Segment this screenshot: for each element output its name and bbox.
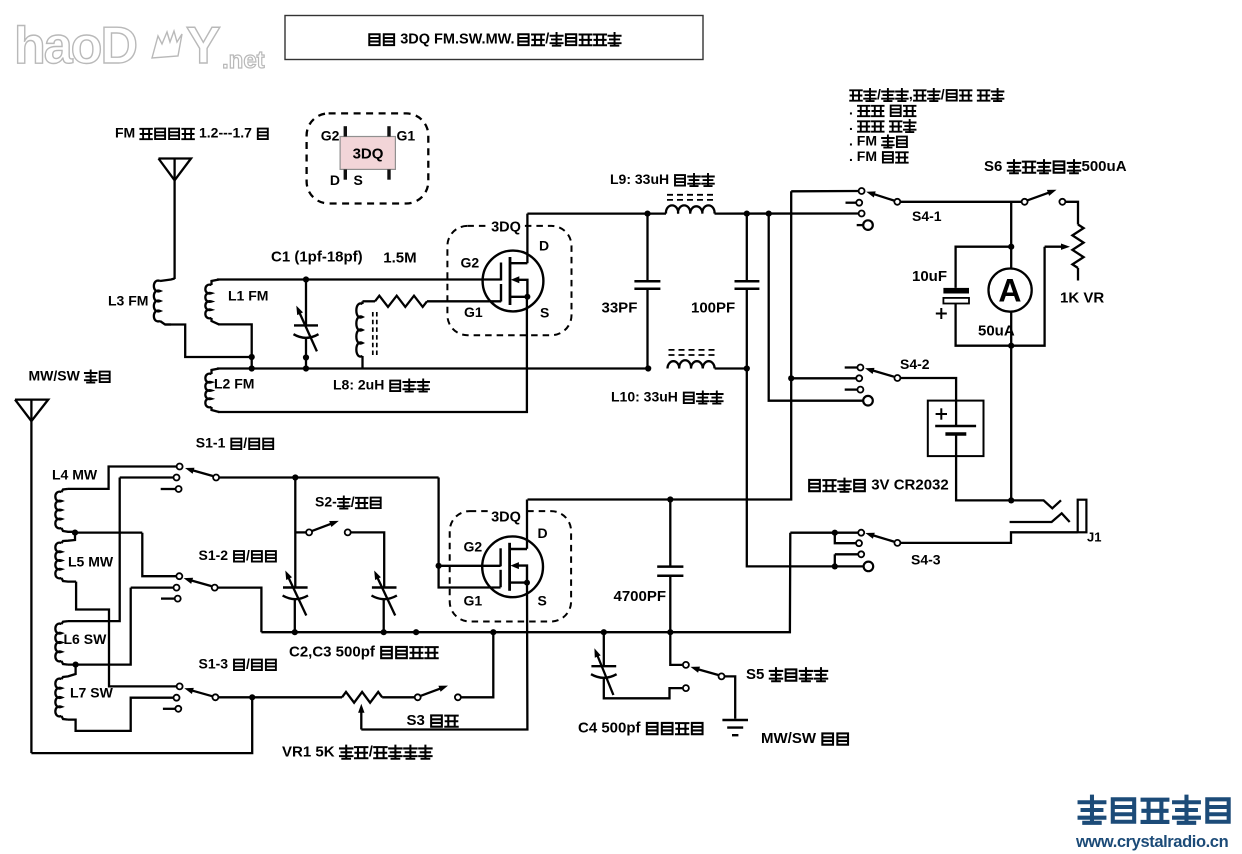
- wire S4-3 pivot to J1 sleeve: [901, 532, 1078, 543]
- junction L4/L5 tap: [72, 530, 78, 536]
- variable capacitor C2 curved plate: [283, 596, 308, 600]
- svg-text:. FM: . FM: [849, 133, 877, 149]
- wire L2 top line: [217, 367, 648, 369]
- S4-1 wiper pivot: [894, 199, 900, 205]
- svg-text:/: /: [369, 744, 374, 761]
- svg-text:J1: J1: [1087, 530, 1101, 545]
- S1-3 wiper pivot: [212, 694, 218, 700]
- wire L2 bottom line to Q1 source: [218, 297, 527, 412]
- S4-3 contact3 stub: [835, 553, 858, 555]
- svg-text:D: D: [330, 172, 340, 188]
- wire S1-1 pivot to Q2: [219, 476, 438, 478]
- wire C3 bottom lead: [383, 599, 385, 632]
- wire antenna ground run: [31, 697, 252, 753]
- inductor L3 FM: [154, 281, 160, 322]
- S6 contact b: [1059, 199, 1065, 205]
- meter M 50uA circle: [989, 269, 1032, 312]
- wire L10 right stub: [715, 367, 747, 369]
- wire S1-2 c2 feed: [131, 586, 174, 588]
- wire S1-1 c2 feed: [120, 476, 174, 478]
- svg-text:S4-3: S4-3: [911, 552, 941, 568]
- svg-text:G1: G1: [464, 304, 483, 320]
- battery BT1 long plate: [935, 425, 976, 428]
- S1-1 wiper arm: [192, 470, 213, 476]
- capacitor 4700PF: [657, 565, 683, 568]
- junction S4-3 common tee: [832, 563, 838, 569]
- svg-text:C2,C3 500pf: C2,C3 500pf: [289, 644, 376, 661]
- wire S4-1 pivot to S6: [901, 201, 1022, 203]
- wire L4 top to S1-1 c1: [68, 467, 176, 489]
- svg-text:. FM: . FM: [849, 148, 877, 164]
- inductor L5 MW: [55, 543, 61, 579]
- svg-text:L6 SW: L6 SW: [64, 631, 108, 647]
- wire 33PF top lead: [646, 214, 648, 282]
- junction J1 tip node: [1008, 497, 1014, 503]
- wire 100PF net down to S4-3 common: [747, 369, 864, 567]
- wire 1K VR wiper down: [1011, 247, 1044, 346]
- C1 trimmer arrow: [299, 312, 317, 352]
- haoDIY.net watermark logo: [14, 17, 265, 75]
- S3 contact 2: [455, 694, 461, 700]
- wire L8 top to resistor: [363, 300, 376, 302]
- capacitor C1 curved plate: [294, 334, 319, 338]
- svg-text:G2: G2: [461, 255, 480, 271]
- junction rail seam: [413, 629, 419, 635]
- svg-text:/: /: [941, 86, 945, 102]
- J1 plug body: [1078, 500, 1087, 533]
- wire S1-1 c2 net to L6 top: [68, 478, 120, 622]
- capacitor C1 top plate: [294, 324, 318, 326]
- S4-1 wiper arm: [871, 193, 894, 200]
- title box frame: [285, 16, 703, 60]
- transistor Q1 3DQ dual-gate MOSFET: [483, 251, 544, 312]
- variable capacitor C2 arrow: [288, 577, 306, 616]
- svg-text:A: A: [998, 273, 1021, 309]
- S5 wiper pivot: [719, 673, 725, 679]
- wire Q2 source down: [361, 583, 527, 730]
- wire 4700PF top lead: [669, 500, 671, 567]
- wire 10uF bottom: [956, 304, 1012, 346]
- wire S3 to rail: [461, 632, 493, 697]
- S4-1 contact1 wire: [791, 190, 858, 193]
- resistor 1.5M: [375, 296, 427, 307]
- S1-1 contact 1: [177, 464, 183, 470]
- capacitor 10uF negative plate: [943, 298, 969, 304]
- svg-text:FM: FM: [115, 125, 135, 141]
- wire L5 bottom to S1-3 c1: [76, 582, 176, 687]
- svg-text:Y: Y: [186, 17, 221, 75]
- S4-1 contact2 stub: [846, 202, 856, 204]
- svg-text:500uA: 500uA: [1082, 158, 1127, 175]
- svg-text:3DQ: 3DQ: [491, 220, 521, 236]
- logo glyph 石: [1113, 799, 1134, 821]
- svg-text:S1-3: S1-3: [199, 656, 229, 672]
- S4-1 common terminal: [863, 220, 873, 230]
- svg-text:L10: 33uH: L10: 33uH: [611, 389, 678, 405]
- svg-text:.: .: [849, 117, 853, 133]
- wire Q2 drain up to D-line: [526, 500, 528, 549]
- svg-text:VR1 5K: VR1 5K: [282, 744, 335, 761]
- svg-text:D: D: [538, 525, 548, 541]
- pin S (bottom-right): [387, 169, 390, 179]
- S4-1 contact 2: [856, 200, 862, 206]
- battery plus sign: [936, 413, 947, 415]
- MW/SW wire antenna symbol: [15, 400, 48, 422]
- capacitor C4 top plate: [591, 665, 616, 667]
- capacitor 100PF: [735, 280, 760, 283]
- S5 contact 2: [683, 685, 689, 691]
- logo glyph 收: [1143, 800, 1168, 822]
- logo glyph 矿: [1080, 797, 1105, 823]
- wire Q1 drain up: [526, 214, 528, 264]
- wire battery negative down: [956, 434, 1011, 500]
- battery box: [928, 401, 984, 457]
- inductor L9 33uH choke: [666, 205, 715, 213]
- wire meter bottom lead: [1010, 312, 1012, 346]
- wire S4-1 contact1 net down: [528, 191, 792, 499]
- transistor Q2 3DQ dual-gate MOSFET: [482, 536, 543, 597]
- transistor Q1 dashed box: [447, 226, 571, 335]
- wire top drain rail right of L9: [715, 212, 862, 214]
- wire L1 bottom to junction: [218, 324, 252, 368]
- VR1 wiper arrow: [360, 711, 362, 730]
- S1-3 contact 2: [174, 695, 180, 701]
- svg-text:/: /: [246, 656, 250, 672]
- S2 contact1 stub: [295, 531, 306, 533]
- wire C4 top lead: [603, 632, 605, 666]
- wire S5 pivot to ground: [725, 676, 735, 718]
- 3DQ pinout dashed box: [307, 113, 429, 203]
- S1-3 contact 1: [177, 683, 183, 689]
- junction L1 path at L2 top: [249, 365, 255, 371]
- wire resistor to G1: [427, 300, 501, 302]
- svg-text:1.5M: 1.5M: [383, 250, 416, 267]
- text 调频/调幅,无源/再生 选择: [850, 90, 862, 100]
- wire VR1 to S3: [382, 696, 414, 698]
- junction S1-1/S2 tee: [292, 474, 298, 480]
- junction C4 top: [601, 629, 607, 635]
- S4-2 common terminal: [863, 396, 873, 406]
- svg-text:100PF: 100PF: [691, 300, 735, 317]
- S1-1 contact3 stub: [161, 488, 175, 490]
- S1-2 contact 1: [176, 573, 182, 579]
- L8 core dashes: [373, 312, 377, 356]
- wire C1 top lead: [305, 280, 307, 326]
- svg-text:www.crystalradio.cn: www.crystalradio.cn: [1075, 833, 1229, 851]
- junction C2 bottom: [292, 629, 298, 635]
- junction 4700PF top: [667, 496, 673, 502]
- svg-text:L3 FM: L3 FM: [108, 293, 148, 309]
- S1-2 contact 2: [174, 585, 180, 591]
- svg-text:L2 FM: L2 FM: [214, 376, 254, 392]
- pin D (bottom-left): [344, 169, 347, 179]
- S3 open wiper arm: [421, 689, 441, 696]
- inductor L2 FM: [205, 374, 211, 408]
- svg-text:1K VR: 1K VR: [1060, 290, 1104, 307]
- wire C4 bottom to S5 c2: [604, 678, 683, 698]
- variable capacitor C3 top plate: [372, 586, 397, 588]
- wire S2 c2 to C3: [351, 532, 384, 587]
- svg-text:S: S: [538, 593, 547, 609]
- junction L3/L1 tap: [249, 354, 255, 360]
- svg-text:S: S: [354, 172, 363, 188]
- S4-2 contact1 stub: [845, 366, 857, 368]
- svg-text:G2: G2: [464, 539, 483, 555]
- svg-text:G1: G1: [397, 128, 416, 144]
- svg-text:S1-1: S1-1: [196, 435, 226, 451]
- S4-3 common terminal: [864, 562, 874, 572]
- svg-text:C4 500pf: C4 500pf: [578, 720, 642, 737]
- junction S3 on rail: [490, 629, 496, 635]
- pin G2 (top-left): [344, 126, 347, 136]
- junction S4-3 c1 tee: [832, 530, 838, 536]
- svg-text:L4 MW: L4 MW: [52, 467, 98, 483]
- S4-1 common stub: [857, 224, 863, 226]
- junction C1 bottom a: [303, 354, 309, 360]
- junction antenna/S1-3 tee: [249, 694, 255, 700]
- S4-2 contact 3: [857, 387, 863, 393]
- svg-text:/: /: [246, 547, 250, 563]
- 3DQ package body: [340, 137, 395, 170]
- pin G1 (top-right): [387, 126, 390, 136]
- junction C1 bottom b: [303, 365, 309, 371]
- battery BT1 short plate: [945, 432, 966, 436]
- ground MW/SW: [722, 719, 748, 721]
- S4-2 contact2 wire: [791, 377, 856, 379]
- wire L6 bottom to S1-2 c2: [68, 588, 131, 665]
- inductor L7 SW: [55, 679, 61, 717]
- resistor 1K VR: [1072, 225, 1083, 269]
- logo glyph 机: [1207, 799, 1228, 821]
- wire S2 feed vertical: [294, 478, 296, 588]
- svg-text:/: /: [545, 32, 549, 48]
- svg-text:/: /: [877, 86, 881, 102]
- S1-3 contact 3: [175, 706, 181, 712]
- S4-2 wiper arm: [870, 370, 894, 377]
- junction S4-2 contact2 tee: [788, 375, 794, 381]
- svg-text:S: S: [540, 305, 549, 321]
- capacitor C4 curved plate: [591, 674, 617, 678]
- Q2 3DQ label background: [488, 506, 524, 519]
- S1-1 contact 2: [174, 475, 180, 481]
- wire S5 c1 feed: [670, 632, 682, 665]
- svg-text:3DQ: 3DQ: [491, 510, 521, 526]
- S1-2 contact 3: [175, 596, 181, 602]
- junction C3 bottom: [381, 629, 387, 635]
- S4-2 contact 2: [856, 375, 862, 381]
- svg-text:L7 SW: L7 SW: [70, 685, 114, 701]
- inductor L1 FM: [205, 285, 211, 319]
- label 再生电池 3V CR2032: [809, 480, 820, 491]
- variable capacitor C3 curved plate: [372, 596, 397, 600]
- 1K VR wiper arrow: [1045, 246, 1063, 248]
- node 33PF top junction: [644, 211, 650, 217]
- wire top drain rail: [527, 212, 666, 214]
- S4-3 contact 1: [858, 530, 864, 536]
- S5 wiper arm: [697, 669, 718, 675]
- wire L7 bottom to S1-3 c2: [68, 698, 173, 731]
- node 100PF top junction: [744, 211, 750, 217]
- svg-text:L9: 33uH: L9: 33uH: [610, 171, 669, 187]
- wire 100PF top lead: [746, 214, 748, 282]
- S4-3 c1-c2 link: [835, 533, 856, 544]
- node C1 top junction: [303, 276, 309, 282]
- inductor L4 MW: [55, 492, 61, 529]
- wire C2 bottom lead: [294, 599, 296, 632]
- resistor VR1 5K: [342, 692, 382, 703]
- wire Q2 G2: [439, 565, 501, 567]
- wire S1-2 c1 feed: [142, 533, 176, 577]
- junction 100PF bottom / L10 right: [744, 365, 750, 371]
- logo glyph 音: [1174, 797, 1199, 823]
- svg-text:3DQ FM.SW.MW.: 3DQ FM.SW.MW.: [400, 32, 514, 48]
- wire 100PF bottom lead: [746, 289, 748, 369]
- wire tap to S1-2 c1 corner: [75, 531, 142, 533]
- svg-text:C1 (1pf-18pf): C1 (1pf-18pf): [271, 249, 363, 266]
- inductor L8 2uH choke: [356, 303, 362, 356]
- svg-text:1.2---1.7: 1.2---1.7: [199, 125, 252, 141]
- junction top rail at 768.7: [766, 211, 772, 217]
- S6 open wiper arm: [1028, 193, 1049, 201]
- wire C1 bottom lead: [305, 338, 307, 369]
- S1-1 contact 3: [176, 486, 182, 492]
- S2 contact 1: [306, 529, 312, 535]
- svg-text:S3: S3: [407, 712, 425, 729]
- wire L3 bottom to tap: [165, 325, 252, 358]
- wire 10uF top: [956, 247, 1012, 288]
- junction meter/10uF top: [1008, 244, 1014, 250]
- svg-text:10uF: 10uF: [912, 268, 947, 285]
- C4 arrow: [597, 655, 613, 695]
- S2 open wiper arm: [312, 524, 331, 531]
- S1-2 wiper pivot: [212, 585, 218, 591]
- svg-text:.net: .net: [222, 47, 265, 74]
- wire meter top lead: [1010, 202, 1012, 269]
- S3 contact 1: [415, 694, 421, 700]
- L10 core dashes: [669, 350, 717, 355]
- junction 33PF bottom / L10 left: [645, 365, 651, 371]
- junction 4700PF bottom: [667, 629, 673, 635]
- wire meter net down to J1: [1010, 346, 1012, 501]
- L9 core dashes: [667, 195, 716, 200]
- wire 4700PF bottom lead: [669, 576, 671, 632]
- S1-1 wiper pivot: [213, 475, 219, 481]
- wire net to S4-2 common: [769, 214, 864, 401]
- S4-3 contact 3: [858, 551, 864, 557]
- S4-1 contact 3: [859, 211, 865, 217]
- wire S1-2 pivot to rail: [218, 588, 261, 633]
- svg-text:.: .: [849, 102, 853, 118]
- S4-1 contact 1: [859, 188, 865, 194]
- 10uF plus sign: [936, 313, 947, 315]
- junction meter bottom: [1008, 343, 1014, 349]
- svg-text:G2: G2: [321, 128, 340, 144]
- S1-2 wiper arm: [190, 580, 211, 586]
- junction L6/L7 tap: [73, 662, 79, 668]
- wire L1 top line to C1 and G2: [217, 278, 501, 280]
- svg-text:4700PF: 4700PF: [614, 588, 667, 605]
- variable capacitor C3 arrow: [377, 577, 395, 616]
- S4-3 contact1 wire: [790, 532, 858, 534]
- svg-text:,: ,: [909, 86, 913, 102]
- svg-text:S6: S6: [984, 158, 1002, 175]
- svg-text:/: /: [351, 494, 355, 510]
- wire bottom common rail: [261, 533, 790, 633]
- transistor Q2 dashed box: [450, 511, 571, 621]
- svg-text:S5: S5: [746, 666, 764, 683]
- svg-text:MW/SW: MW/SW: [29, 368, 81, 384]
- variable capacitor C2 top plate: [283, 586, 308, 588]
- inductor L6 SW: [55, 624, 61, 662]
- svg-text:D: D: [539, 238, 549, 254]
- 1K VR bottom lead: [1077, 268, 1079, 281]
- svg-text:MW/SW: MW/SW: [761, 730, 817, 747]
- wire 33PF bottom lead: [646, 289, 648, 369]
- S5 contact 1: [683, 662, 689, 668]
- S1-3 wiper arm: [191, 690, 212, 696]
- svg-text:L5 MW: L5 MW: [68, 554, 114, 570]
- FM telescopic antenna symbol: [159, 159, 192, 181]
- S2 contact 2: [345, 529, 351, 535]
- wire S1-1 to Q2 gates vertical: [439, 478, 501, 588]
- S4-2 wiper pivot: [894, 375, 900, 381]
- svg-text:G1: G1: [464, 593, 483, 609]
- S1-3 contact3 stub: [163, 708, 175, 710]
- S4-2 contact3 stub: [845, 388, 857, 390]
- wire S1-3 pivot to VR1: [219, 696, 342, 698]
- junction Q2 G2 tee: [436, 563, 442, 569]
- svg-text:haoD: haoD: [14, 17, 136, 75]
- svg-text:L1 FM: L1 FM: [228, 288, 268, 304]
- S4-2 contact 1: [857, 365, 863, 371]
- svg-text:3DQ: 3DQ: [353, 146, 384, 163]
- J1 ring contact: [1010, 513, 1070, 522]
- capacitor 10uF positive plate: [943, 288, 969, 294]
- capacitor 33PF: [634, 280, 660, 283]
- svg-text:S4-1: S4-1: [912, 208, 942, 224]
- svg-text:/: /: [243, 435, 247, 451]
- inductor L10 33uH choke: [668, 360, 715, 368]
- svg-text:S1-2: S1-2: [199, 547, 229, 563]
- S6 contact a: [1022, 199, 1028, 205]
- svg-text:3V CR2032: 3V CR2032: [871, 477, 949, 494]
- svg-text:S4-2: S4-2: [900, 356, 930, 372]
- Q1 3DQ label background: [488, 219, 524, 232]
- title text 便携 3DQ FM.SW.MW.无源/再生收音机: [369, 34, 379, 45]
- S4-3 wiper pivot: [894, 540, 900, 546]
- wire S6 to 1K VR: [1066, 202, 1078, 225]
- wire S4-2 pivot to battery: [901, 378, 956, 426]
- J1 tip contact: [1011, 500, 1061, 508]
- S4-3 wiper arm: [870, 534, 894, 541]
- svg-text:L8: 2uH: L8: 2uH: [333, 377, 384, 393]
- S4-3 contact 2: [856, 540, 862, 546]
- svg-text:33PF: 33PF: [602, 300, 638, 317]
- svg-text:S2-: S2-: [315, 494, 337, 510]
- svg-text:50uA: 50uA: [978, 323, 1015, 340]
- S1-2 contact3 stub: [161, 597, 174, 599]
